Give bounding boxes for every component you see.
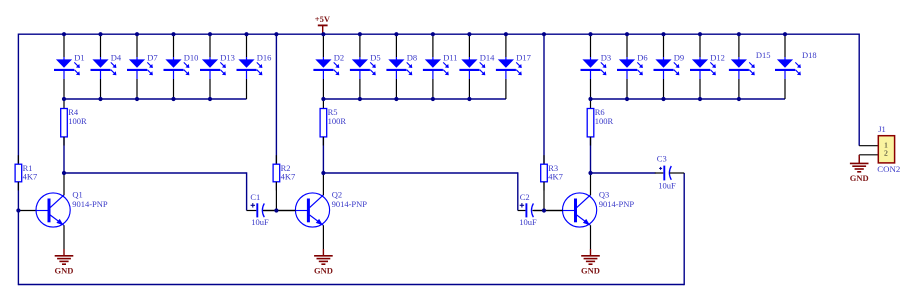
junction collector node — [588, 171, 592, 175]
svg-text:9014-PNP: 9014-PNP — [599, 199, 635, 209]
junction bus3 — [625, 97, 629, 101]
svg-text:C3: C3 — [657, 154, 667, 164]
wire left edge (rail to R1) — [17, 34, 19, 165]
wire Q3 collector to C3 — [591, 172, 656, 174]
junction Q2 base — [274, 208, 278, 212]
wire R4 to Q1 collector node — [63, 137, 65, 173]
svg-text:4K7: 4K7 — [23, 172, 38, 182]
resistor R1 — [15, 155, 37, 190]
svg-text:GND: GND — [581, 266, 600, 276]
svg-text:GND: GND — [314, 266, 333, 276]
svg-text:+5V: +5V — [315, 14, 331, 24]
svg-text:100R: 100R — [328, 116, 347, 126]
svg-text:10uF: 10uF — [519, 217, 537, 227]
svg-text:D6: D6 — [637, 53, 647, 63]
svg-text:10uF: 10uF — [251, 217, 269, 227]
svg-text:D15: D15 — [756, 50, 771, 60]
svg-text:D12: D12 — [710, 53, 725, 63]
resistor R3 — [541, 155, 563, 190]
svg-text:D17: D17 — [516, 53, 531, 63]
LED D11 — [423, 34, 458, 99]
svg-text:D5: D5 — [370, 53, 380, 63]
LED D13 — [200, 34, 235, 99]
junction bus2 — [431, 97, 435, 101]
LED D16 — [237, 34, 272, 99]
junction rail — [431, 32, 435, 36]
wire C2 to Q3 base — [534, 210, 563, 212]
svg-text:D2: D2 — [334, 53, 344, 63]
wire +5V rail (top) — [18, 33, 859, 35]
svg-text:2: 2 — [884, 149, 888, 158]
wire C2 corner drop — [517, 172, 519, 210]
junction Q1 base — [16, 208, 20, 212]
LED D2 — [313, 34, 344, 99]
resistor R2 — [273, 155, 295, 190]
transistor Q3 — [563, 173, 635, 249]
wire R5 to Q2 collector node — [322, 137, 324, 173]
junction rail — [783, 32, 787, 36]
svg-text:C2: C2 — [520, 192, 530, 202]
LED D7 — [127, 34, 158, 99]
ground at J1 pin 2 (symbol) — [850, 157, 869, 184]
junction bus2 — [467, 97, 471, 101]
svg-text:4K7: 4K7 — [548, 172, 563, 182]
wire R1/Q1 base — [18, 210, 36, 212]
LED D5 — [350, 34, 381, 99]
svg-text:D16: D16 — [257, 53, 272, 63]
svg-text:D4: D4 — [111, 53, 122, 63]
junction rail — [467, 32, 471, 36]
ground at Q3 emitter — [581, 249, 600, 276]
LED D17 — [496, 34, 531, 99]
svg-text:C1: C1 — [250, 192, 260, 202]
junction collector node — [321, 171, 325, 175]
junction bus2 — [321, 97, 325, 101]
svg-text:D7: D7 — [147, 53, 157, 63]
resistor R6 — [587, 100, 613, 146]
svg-text:GND: GND — [850, 173, 869, 183]
junction rail — [171, 32, 175, 36]
resistor R5 — [320, 100, 346, 146]
wire C1 corner drop — [246, 172, 248, 210]
wire R6 to Q3 collector node — [590, 137, 592, 173]
ground at J1 pin 2 — [858, 155, 860, 164]
junction rail — [274, 32, 278, 36]
transistor Q1 — [36, 173, 108, 249]
LED D9 — [654, 34, 685, 99]
junction bus1 — [98, 97, 102, 101]
transistor Q2 — [295, 173, 367, 249]
capacitor C3 — [655, 154, 684, 191]
wire feedback riser right of C3 — [683, 173, 685, 285]
svg-text:D1: D1 — [74, 53, 84, 63]
junction rail — [135, 32, 139, 36]
svg-text:100R: 100R — [595, 116, 614, 126]
svg-text:GND: GND — [55, 266, 74, 276]
junction bus1 — [171, 97, 175, 101]
LED D14 — [459, 34, 495, 99]
junction bus1 — [208, 97, 212, 101]
junction rail — [698, 32, 702, 36]
LED D3 — [581, 34, 612, 99]
svg-text:D3: D3 — [601, 53, 611, 63]
junction rail — [394, 32, 398, 36]
power +5V — [315, 14, 331, 34]
wire rail to R2 — [275, 34, 277, 164]
junction rail — [358, 32, 362, 36]
junction rail — [62, 32, 66, 36]
svg-text:D9: D9 — [674, 53, 684, 63]
LED D4 — [91, 34, 122, 99]
svg-text:D13: D13 — [220, 53, 235, 63]
capacitor C1 — [247, 192, 296, 227]
LED D6 — [617, 34, 648, 99]
LED D1 — [54, 34, 85, 99]
svg-text:100R: 100R — [68, 116, 87, 126]
connector J1 CON2 — [859, 124, 900, 174]
junction rail — [542, 32, 546, 36]
wire right edge (rail to J1 pin1) — [858, 34, 860, 146]
svg-text:4K7: 4K7 — [281, 172, 296, 182]
junction rail — [588, 32, 592, 36]
junction rail — [244, 32, 248, 36]
wire rail to R3 — [543, 34, 545, 164]
wire R3 to base node — [543, 182, 545, 211]
wire LED bus group 1 — [64, 98, 247, 100]
wire bottom feedback — [18, 284, 684, 286]
junction bus1 — [62, 97, 66, 101]
svg-text:D8: D8 — [407, 53, 417, 63]
ground at Q2 emitter — [314, 249, 333, 276]
svg-text:D11: D11 — [443, 53, 457, 63]
wire R2 to base node — [275, 182, 277, 211]
LED D15 — [729, 34, 771, 99]
LED D12 — [690, 34, 725, 99]
capacitor C2 — [518, 192, 563, 227]
svg-text:D10: D10 — [184, 53, 199, 63]
junction Q3 base — [542, 208, 546, 212]
junction rail — [625, 32, 629, 36]
junction rail — [208, 32, 212, 36]
junction bus3 — [661, 97, 665, 101]
junction rail — [321, 32, 325, 36]
wire Q2 collector to C2 corner — [323, 172, 517, 174]
wire Q1 collector to C1 corner — [64, 172, 247, 174]
svg-text:9014-PNP: 9014-PNP — [72, 199, 108, 209]
junction bus1 — [135, 97, 139, 101]
svg-text:CON2: CON2 — [877, 164, 900, 174]
wire LED bus group 2 — [323, 98, 506, 100]
LED D8 — [386, 34, 417, 99]
LED D10 — [164, 34, 199, 99]
wire LED bus group 3 — [591, 98, 786, 100]
junction bus2 — [358, 97, 362, 101]
svg-text:D18: D18 — [802, 50, 817, 60]
wire C1 to Q2 base — [263, 210, 296, 212]
junction collector node — [62, 171, 66, 175]
junction bus2 — [394, 97, 398, 101]
svg-text:9014-PNP: 9014-PNP — [332, 199, 368, 209]
junction rail — [661, 32, 665, 36]
junction bus3 — [588, 97, 592, 101]
svg-text:J1: J1 — [878, 124, 886, 134]
ground at Q1 emitter — [55, 249, 74, 276]
svg-text:10uF: 10uF — [658, 181, 676, 191]
junction bus3 — [698, 97, 702, 101]
LED D18 — [775, 34, 817, 99]
resistor R4 — [61, 100, 87, 146]
svg-text:D14: D14 — [480, 53, 495, 63]
junction rail — [98, 32, 102, 36]
junction bus3 — [737, 97, 741, 101]
junction rail — [504, 32, 508, 36]
wire left edge (R1 to bottom) — [17, 182, 19, 286]
junction rail — [737, 32, 741, 36]
